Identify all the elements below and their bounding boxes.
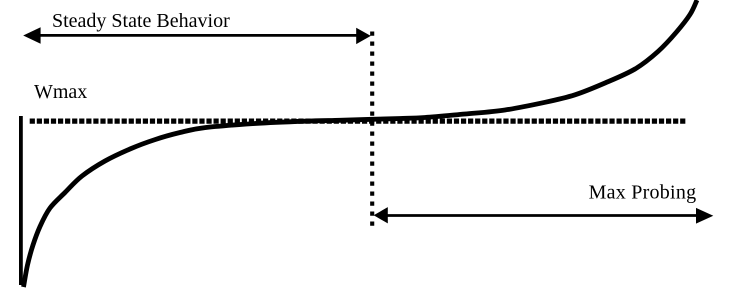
svg-text:Max Probing: Max Probing <box>589 181 697 203</box>
svg-text:Steady State Behavior: Steady State Behavior <box>52 10 230 32</box>
svg-text:Wmax: Wmax <box>34 81 87 103</box>
